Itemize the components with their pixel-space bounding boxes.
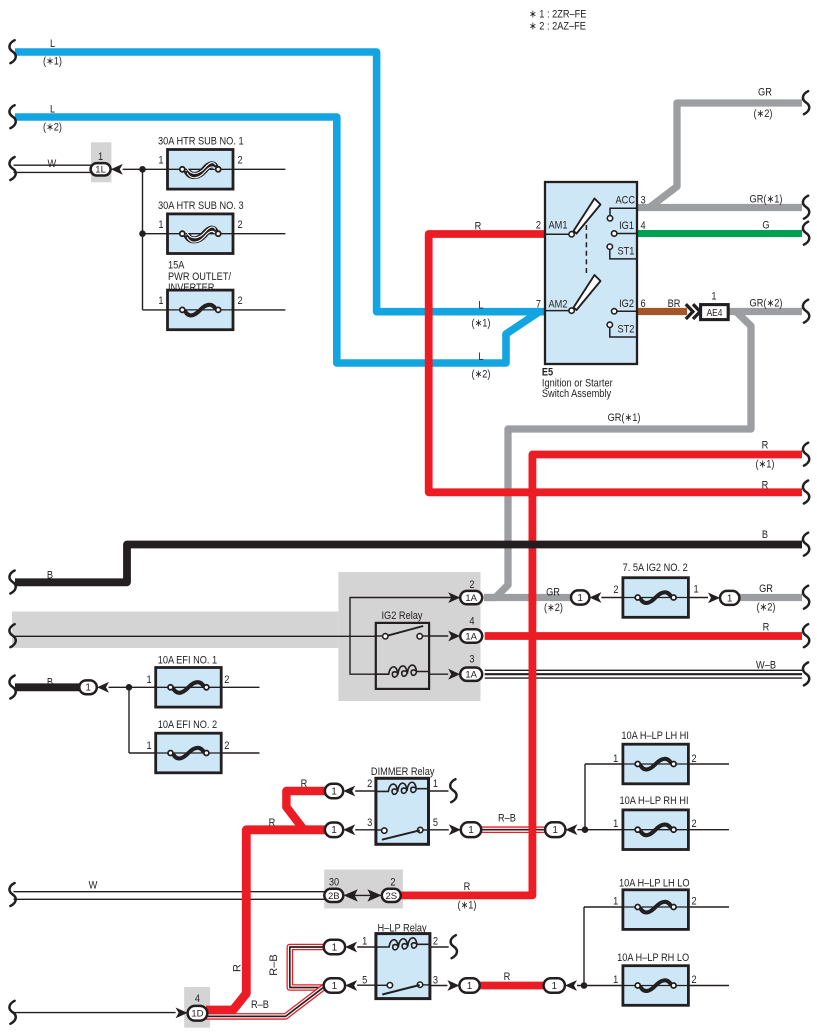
break left edge W top <box>9 157 15 180</box>
wire W to 2B <box>14 892 327 900</box>
svg-text:GR(∗1): GR(∗1) <box>608 412 641 424</box>
wire 1L to fuses <box>123 168 168 170</box>
svg-text:1: 1 <box>727 593 733 604</box>
ignition switch E5 box <box>545 182 637 364</box>
label ACC <box>616 195 635 207</box>
svg-text:3: 3 <box>433 975 438 987</box>
svg-text:2: 2 <box>691 753 696 765</box>
label pin 3 1A <box>469 654 474 666</box>
wire DIMMER pin1 lead <box>429 790 449 792</box>
label 30A HTR SUB NO.3 <box>158 200 244 212</box>
label pin 4 1A <box>469 616 474 628</box>
svg-text:1D: 1D <box>191 1009 203 1020</box>
wire HTR1 pin2 stub <box>233 168 285 170</box>
connector 1 (after 7.5A fuse) <box>720 591 739 605</box>
svg-text:7: 7 <box>536 299 541 311</box>
svg-text:G: G <box>762 220 769 232</box>
svg-text:R: R <box>232 964 244 972</box>
svg-text:1: 1 <box>332 981 338 992</box>
connector AE4 chevrons <box>686 304 700 319</box>
wire DIMMER pin3 lead <box>355 829 376 831</box>
arrow at H-LP pin1 <box>345 942 357 953</box>
svg-text:1: 1 <box>433 778 438 790</box>
svg-text:∗ 1 : 2ZR–FE: ∗ 1 : 2ZR–FE <box>529 9 587 21</box>
svg-text:4: 4 <box>195 993 200 1005</box>
label 2 above 2S <box>390 877 395 889</box>
svg-text:3: 3 <box>469 654 474 666</box>
wire GR(*2) after 7.5A fuse <box>739 594 802 601</box>
svg-text:2: 2 <box>691 818 696 830</box>
svg-text:(∗2): (∗2) <box>471 369 490 381</box>
svg-text:R: R <box>301 778 308 790</box>
label GR (*2) at 1A <box>544 587 563 614</box>
wire IG2 relay pin4 out <box>429 635 448 637</box>
svg-text:W: W <box>89 880 98 892</box>
junction EFI <box>126 684 133 691</box>
svg-text:R: R <box>464 881 471 893</box>
fuse 10A EFI NO.2 <box>156 733 222 773</box>
svg-text:1: 1 <box>711 291 716 303</box>
svg-text:ST1: ST1 <box>618 246 635 258</box>
break right edge W-B <box>803 662 809 685</box>
label B at EFI <box>47 677 53 689</box>
fuse 30A HTR SUB NO.1 <box>168 150 234 190</box>
svg-text:1: 1 <box>694 584 699 596</box>
label 10A H-LP LH LO <box>619 878 690 890</box>
label 7.5A IG2 NO.2 <box>623 562 688 574</box>
label W top <box>48 158 57 170</box>
wire EFI2 pin2 stub <box>221 752 259 754</box>
fuse 7.5A IG2 NO.2 <box>623 578 689 618</box>
arrow at 1A pin4 <box>448 631 460 642</box>
svg-text:(∗2): (∗2) <box>753 108 772 120</box>
wire GR to oval before 7.5A fuse <box>484 594 572 601</box>
DIMMER relay box <box>376 778 429 844</box>
svg-text:GR(∗2): GR(∗2) <box>750 298 783 310</box>
svg-text:W: W <box>48 158 57 170</box>
label R right low <box>763 622 770 634</box>
svg-text:1: 1 <box>468 825 474 836</box>
svg-text:1: 1 <box>577 593 583 604</box>
svg-text:2: 2 <box>691 974 696 986</box>
svg-text:BR: BR <box>668 298 681 310</box>
label pins 7.5A fuse <box>613 584 699 596</box>
svg-text:AM2: AM2 <box>549 299 568 311</box>
label GR(*1) mid <box>608 412 641 424</box>
svg-text:R: R <box>475 221 482 233</box>
IG2 relay box <box>376 623 429 689</box>
wire R(*1) right to 2S <box>401 455 802 896</box>
svg-text:2: 2 <box>469 579 474 591</box>
label L(*1) left <box>43 38 62 67</box>
svg-text:2: 2 <box>691 896 696 908</box>
label 30A HTR SUB NO.1 <box>158 136 244 148</box>
connector 1 (EFI feed) <box>79 680 97 694</box>
svg-text:L: L <box>478 300 483 312</box>
connector 1 (red right) <box>544 978 565 992</box>
label note *2 <box>529 21 586 33</box>
svg-text:AM1: AM1 <box>549 220 568 232</box>
wire GR(*2) branch upper <box>650 103 802 207</box>
switch ST2 contact <box>607 322 637 337</box>
svg-text:R: R <box>763 622 770 634</box>
wire DIMMER pin5 lead <box>429 829 449 831</box>
connector 2S <box>382 889 401 902</box>
break left edge B <box>9 571 15 594</box>
svg-text:1: 1 <box>331 825 337 836</box>
label 10A H-LP RH LO <box>617 952 689 964</box>
arrow at 2S <box>367 889 381 901</box>
wire between 2B and 2S <box>352 894 373 896</box>
svg-text:∗ 2 : 2AZ–FE: ∗ 2 : 2AZ–FE <box>529 21 586 33</box>
wire LH LO pin2 stub <box>688 906 729 908</box>
svg-text:3: 3 <box>367 817 372 829</box>
label pin 6 IG2 <box>641 298 646 310</box>
label ST1 <box>618 246 635 258</box>
H-LP relay box <box>376 934 430 999</box>
break left edge W mid <box>9 624 15 647</box>
svg-text:30: 30 <box>329 877 340 889</box>
break left edge B EFI <box>9 676 15 699</box>
svg-text:(∗1): (∗1) <box>471 318 490 330</box>
label W-B right <box>756 660 776 672</box>
svg-text:1: 1 <box>331 786 337 797</box>
wire EFI bus vertical <box>128 687 130 753</box>
svg-text:30A HTR SUB NO. 1: 30A HTR SUB NO. 1 <box>158 136 244 148</box>
label BR <box>668 298 681 310</box>
svg-text:10A EFI NO. 2: 10A EFI NO. 2 <box>158 719 218 731</box>
label pins LH HI <box>613 753 697 765</box>
svg-text:1A: 1A <box>465 593 477 604</box>
switch IG2 contact <box>612 309 638 314</box>
fuse 15A PWR OUTLET/INVERTER <box>168 290 234 330</box>
IG2 relay switch <box>376 626 429 639</box>
IG2 relay shaded band <box>12 612 338 649</box>
svg-text:5: 5 <box>433 817 438 829</box>
wire R from 1A pin4 <box>485 632 802 640</box>
wire R from AM1 <box>429 234 802 492</box>
wire EFI1 pin2 stub <box>221 686 259 688</box>
label pins HTR1 <box>158 155 243 167</box>
wire R-B from 1D to H-LP pin5 <box>206 986 325 1016</box>
label pin 2 1A <box>469 579 474 591</box>
wire R-B loop H-LP pin1 <box>290 947 325 988</box>
wire RH HI pin2 stub <box>688 829 729 831</box>
svg-text:L: L <box>50 38 55 50</box>
DIMMER relay coil <box>376 782 429 794</box>
fuse 10A H-LP RH LO <box>623 966 689 1006</box>
connector 1A pin3 <box>460 668 482 681</box>
svg-text:2: 2 <box>367 778 372 790</box>
wire B to EFI fuses <box>15 683 81 691</box>
svg-text:1L: 1L <box>95 165 106 176</box>
wire BR from IG2 <box>637 308 687 315</box>
svg-text:1: 1 <box>613 818 618 830</box>
label IG1 <box>619 220 634 232</box>
label L(*2) lower <box>471 351 490 380</box>
wire HTR3 pin2 stub <box>233 233 285 235</box>
wire PWR pin2 stub <box>233 309 285 311</box>
svg-text:2: 2 <box>224 740 229 752</box>
label IG2 <box>619 298 634 310</box>
arrow before H-LP pin3 oval <box>447 980 459 991</box>
switch AM1 contact <box>569 232 574 237</box>
connector 1D shaded box <box>184 987 210 1028</box>
label L(*2) left <box>43 104 62 134</box>
break right edge R low <box>803 624 809 647</box>
connector 1 (H-LP pin1) <box>324 940 345 955</box>
break H-LP pin2 <box>451 935 457 958</box>
svg-text:(∗1): (∗1) <box>43 56 62 68</box>
switch AM2 lever <box>574 275 601 310</box>
svg-text:4: 4 <box>641 220 646 232</box>
wire 7.5A fuse right lead <box>688 597 708 599</box>
label R vertical <box>232 964 244 972</box>
label R-B at DIMMER pin5 <box>498 813 516 825</box>
svg-text:(∗2): (∗2) <box>43 122 62 134</box>
svg-text:GR: GR <box>759 583 773 595</box>
wire R main to DIMMER pin3 <box>206 830 326 1010</box>
connector 1 (DIMMER pin2) <box>325 784 343 799</box>
wire long row into IG2 relay <box>14 635 376 637</box>
label pins RH HI <box>613 818 697 830</box>
svg-text:W–B: W–B <box>756 660 776 672</box>
break right edge GR(*2) mid <box>803 300 809 323</box>
label note *1 <box>529 9 587 21</box>
wire GR(*2) branch down to IG2 relay <box>484 313 751 598</box>
svg-text:5: 5 <box>362 975 367 987</box>
svg-text:B: B <box>762 529 768 541</box>
arrow at 2B <box>344 889 358 901</box>
svg-text:AE4: AE4 <box>707 307 723 318</box>
label DIMMER Relay <box>371 766 435 778</box>
label pins RH LO <box>613 974 697 986</box>
connector 1 (DIMMER pin3) <box>325 823 343 838</box>
svg-text:R–B: R–B <box>251 999 269 1011</box>
svg-text:IG2: IG2 <box>619 298 634 310</box>
wire HTR fuse bus vertical <box>142 169 144 310</box>
fuse 10A H-LP LH LO <box>623 890 689 930</box>
svg-text:R–B: R–B <box>268 954 280 975</box>
svg-text:1: 1 <box>158 155 163 167</box>
label pin 3 ACC <box>641 195 646 207</box>
label R (*1) low <box>457 881 476 911</box>
svg-text:L: L <box>50 104 55 116</box>
label GR(*2) after AE4 <box>750 298 783 310</box>
svg-text:2: 2 <box>390 877 395 889</box>
svg-text:4: 4 <box>469 616 474 628</box>
svg-text:1A: 1A <box>465 631 477 642</box>
switch IG1 contact <box>612 231 638 236</box>
IG2 relay coil <box>376 665 429 677</box>
svg-text:GR(∗1): GR(∗1) <box>750 194 783 206</box>
arrow at EFI oval <box>97 682 109 693</box>
label W low <box>89 880 98 892</box>
label 15A PWR OUTLET/INVERTER <box>168 260 231 294</box>
wire W to 1L <box>14 165 92 172</box>
wire H-LP out to fuses <box>577 985 623 987</box>
svg-text:30A HTR SUB NO. 3: 30A HTR SUB NO. 3 <box>158 200 244 212</box>
wire into connector 1D <box>14 1012 176 1014</box>
wire to 10A H-LP LH LO <box>584 906 623 908</box>
label pins LH LO <box>613 896 697 908</box>
wire to EFI NO.2 <box>129 752 156 754</box>
label pin 4 IG1 <box>641 220 646 232</box>
connector 1L shaded box <box>91 142 111 182</box>
wire LH HI pin2 stub <box>688 763 729 765</box>
switch ST1 contact <box>607 244 637 259</box>
wire H-LP pin2 lead <box>430 946 449 948</box>
svg-text:(∗2): (∗2) <box>544 602 563 614</box>
wire B main <box>15 545 802 583</box>
connector 1 (H-LP pin5) <box>324 978 345 993</box>
break right edge B <box>803 533 809 556</box>
wire to 10A H-LP LH HI <box>585 763 623 765</box>
junction H-LP HI fuses <box>582 826 589 833</box>
svg-text:INVERTER: INVERTER <box>168 282 214 294</box>
fuse 10A H-LP RH HI <box>623 810 689 850</box>
svg-text:2: 2 <box>238 295 243 307</box>
svg-text:10A H–LP LH LO: 10A H–LP LH LO <box>619 878 690 890</box>
svg-text:IG1: IG1 <box>619 220 634 232</box>
svg-text:7. 5A IG2 NO. 2: 7. 5A IG2 NO. 2 <box>623 562 688 574</box>
connector 1 (DIMMER pin5 out) <box>461 822 481 837</box>
connector 1 (before 7.5A fuse) <box>571 590 589 604</box>
svg-text:2S: 2S <box>385 891 397 902</box>
label pins EFI2 <box>147 740 230 752</box>
svg-text:2: 2 <box>613 584 618 596</box>
wire to 15A PWR OUTLET <box>143 309 168 311</box>
svg-text:(∗1): (∗1) <box>755 459 774 471</box>
svg-text:B: B <box>47 677 53 689</box>
label B right <box>762 529 768 541</box>
label 4 above 1D <box>195 993 200 1005</box>
break DIMMER pin1 <box>450 779 456 802</box>
wire W-B from 1A pin3 <box>485 670 802 678</box>
arrow at DIMMER pin3 <box>343 824 355 835</box>
svg-text:1: 1 <box>552 981 558 992</box>
svg-text:R: R <box>269 817 276 829</box>
wire H-LP HI fuse bus vertical <box>584 764 586 830</box>
label R above AM1 wire <box>475 221 482 233</box>
svg-text:1A: 1A <box>465 670 477 681</box>
label G right <box>762 220 769 232</box>
svg-text:DIMMER Relay: DIMMER Relay <box>371 766 435 778</box>
label 10A EFI NO.1 <box>158 655 218 667</box>
wire GR(*2) from AE4 <box>727 308 802 315</box>
svg-text:1: 1 <box>613 896 618 908</box>
arrow at 1D <box>176 1008 188 1019</box>
label 10A H-LP LH HI <box>621 730 689 742</box>
label AM2 <box>549 299 568 311</box>
break right edge G <box>803 222 809 245</box>
wire EFI feed <box>109 686 156 688</box>
fuse 10A EFI NO.1 <box>156 668 222 708</box>
label R-B at 1D <box>251 999 269 1011</box>
connector 1A pin2 <box>460 591 482 604</box>
break left edge L(*1) <box>9 40 15 63</box>
H-LP relay switch <box>376 982 430 995</box>
svg-text:1: 1 <box>332 942 338 953</box>
DIMMER relay switch <box>376 827 429 839</box>
break right edge R(*1) <box>803 443 809 466</box>
wire 7.5A fuse left lead <box>601 597 623 599</box>
svg-text:H–LP Relay: H–LP Relay <box>378 923 428 935</box>
label IG2 Relay <box>381 610 423 622</box>
wire R-B DIMMER pin5 to fuses <box>481 826 545 833</box>
break right edge GR(*2) low <box>803 586 809 609</box>
svg-text:2B: 2B <box>328 891 340 902</box>
svg-text:1: 1 <box>147 740 152 752</box>
label H-LP Relay <box>378 923 428 935</box>
fuse 30A HTR SUB NO.3 <box>168 214 234 254</box>
svg-text:6: 6 <box>641 298 646 310</box>
svg-text:3: 3 <box>641 195 646 207</box>
wire R branch to DIMMER pin2 <box>286 791 326 829</box>
svg-text:R: R <box>762 440 769 452</box>
svg-text:(∗2): (∗2) <box>756 602 775 614</box>
wire H-LP LO fuse bus vertical <box>583 907 585 986</box>
arrow at DIMMER pin2 <box>343 786 355 797</box>
break right edge GR(*1) <box>803 196 809 219</box>
arrow after red oval <box>565 980 577 991</box>
svg-text:10A H–LP RH HI: 10A H–LP RH HI <box>620 795 689 807</box>
wire IG2 relay coil out <box>429 673 448 675</box>
connector 2B <box>324 889 343 902</box>
wire to 30A HTR SUB NO.3 <box>143 233 168 235</box>
connector 2B/2S shaded box <box>324 870 403 909</box>
svg-text:2: 2 <box>433 936 438 948</box>
label 1 above AE4 <box>711 291 716 303</box>
connector 1L <box>91 163 111 176</box>
wire DIMMER out to fuses <box>577 829 623 831</box>
wire RH LO pin2 stub <box>688 985 729 987</box>
svg-text:1: 1 <box>613 753 618 765</box>
label pins DIMMER <box>367 778 438 829</box>
label 10A EFI NO.2 <box>158 719 218 731</box>
arrow at 1A pin3 <box>448 669 460 680</box>
wire G from IG1 <box>637 230 802 237</box>
label pins H-LP <box>362 936 438 987</box>
svg-text:ACC: ACC <box>616 195 635 207</box>
svg-text:1: 1 <box>158 219 163 231</box>
connector 1A pin4 <box>460 629 482 642</box>
label L(*1) at AM2 <box>471 300 490 330</box>
arrow after that oval <box>589 592 601 603</box>
arrow before DIMMER pin5 oval <box>449 824 461 835</box>
label R (*1) right <box>755 440 774 471</box>
svg-text:2: 2 <box>238 155 243 167</box>
arrow at 1A pin2 <box>448 592 460 603</box>
connector 1D <box>188 1006 208 1021</box>
svg-text:1: 1 <box>467 981 473 992</box>
arrow at 1L <box>111 164 123 175</box>
label R-B vertical <box>268 954 280 975</box>
switch AM1 stub <box>545 233 570 235</box>
label AM1 <box>549 220 568 232</box>
label pin 2 AM1 <box>536 220 541 232</box>
connector 1 (R-B right) <box>545 822 565 837</box>
svg-text:1: 1 <box>613 974 618 986</box>
label R between ovals low <box>504 971 511 983</box>
label Switch Assembly <box>542 388 612 400</box>
wire IG2 relay coil loop <box>350 598 460 675</box>
switch AM2 stub <box>545 310 570 312</box>
svg-text:1: 1 <box>98 151 103 163</box>
svg-text:10A H–LP RH LO: 10A H–LP RH LO <box>617 952 689 964</box>
switch AM2 contact <box>569 308 574 313</box>
svg-text:B: B <box>47 570 53 582</box>
